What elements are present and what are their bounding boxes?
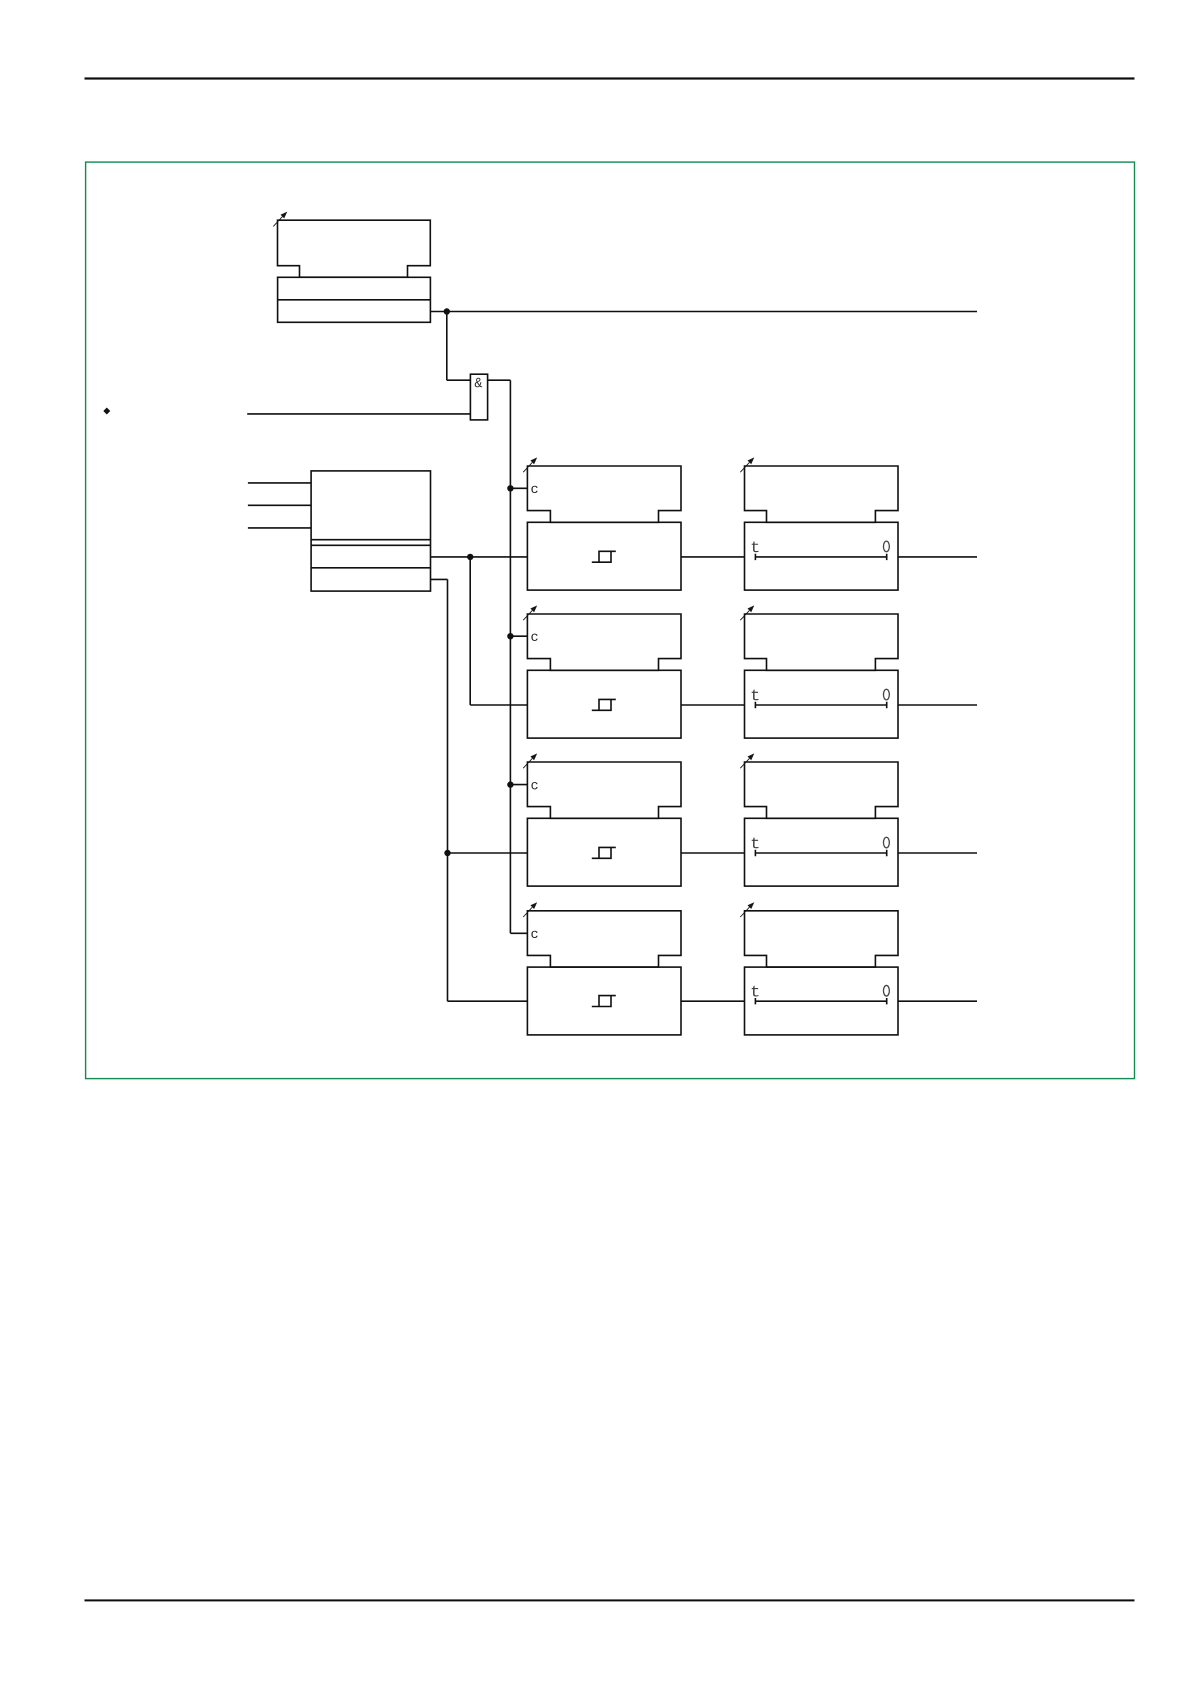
stage 1 comparator adjust arrow — [523, 457, 537, 472]
stage 3 pulse symbol — [592, 847, 616, 858]
stage 3 timer control block — [745, 762, 899, 818]
wire stage 3 clock input c — [510, 784, 527, 786]
stage 4 label 0 — [883, 985, 889, 996]
stage 3 time axis t-0 — [755, 850, 886, 856]
stage 4 timer adjust arrow — [740, 902, 754, 917]
wire stage 3 comparator to timer — [681, 852, 745, 854]
wire branch to stage 4 — [448, 1000, 528, 1002]
stage 2 comparator control block — [527, 614, 681, 670]
stage 4 label t — [752, 986, 759, 997]
wire branch down to stage 2 — [469, 557, 471, 705]
stage 4 comparator adjust arrow — [523, 902, 537, 917]
stage 1 time axis t-0 — [755, 554, 886, 560]
stage 2 label c — [531, 634, 537, 641]
wire stage 2 output — [898, 704, 977, 706]
wire stage 4 clock input c — [510, 932, 527, 934]
oscillator adjust arrow — [273, 212, 287, 227]
stage 4 pulse symbol — [592, 996, 616, 1007]
stage 2 pulse symbol — [592, 699, 616, 710]
stage 3 label t — [752, 838, 759, 849]
stage 2 label 0 — [883, 689, 889, 700]
wire counter input 1 — [248, 482, 311, 484]
stage 3 comparator control block — [527, 762, 681, 818]
node stage 3 branch — [444, 850, 450, 856]
stage 2 timer block — [745, 670, 899, 738]
stage 4 comparator control block — [527, 911, 681, 967]
stage 3 timer block — [745, 818, 899, 886]
stage 2 label t — [752, 690, 759, 701]
wire stage 1 output — [898, 556, 977, 558]
wire stage 4 output — [898, 1000, 977, 1002]
stage 1 timer adjust arrow — [740, 457, 754, 472]
oscillator output block — [278, 277, 431, 322]
wire stage 4 comparator to timer — [681, 1000, 745, 1002]
stage 3 comparator block — [527, 818, 681, 886]
counter divider double — [311, 544, 430, 546]
stage 2 comparator block — [527, 670, 681, 738]
wire stage 2 comparator to timer — [681, 704, 745, 706]
oscillator control block — [278, 220, 431, 277]
node stage 3 clock junction — [507, 781, 513, 787]
stage 4 comparator block — [527, 967, 681, 1035]
wire counter output A to stage 1 — [431, 556, 528, 558]
node stage 1 branch — [467, 554, 473, 560]
AND gate U1 — [470, 374, 487, 420]
stage 1 timer block — [745, 522, 899, 590]
stage 4 time axis t-0 — [755, 998, 886, 1004]
stage 4 timer control block — [745, 911, 899, 967]
wire stage 1 comparator to timer — [681, 556, 745, 558]
wire junction to AND gate — [446, 312, 448, 381]
stage 4 timer block — [745, 967, 899, 1035]
bullet marker — [103, 408, 110, 415]
bottom rule — [85, 1599, 1135, 1601]
wire AND gate output — [488, 379, 511, 381]
stage 4 label c — [531, 931, 537, 938]
wire branch to stage 3 — [448, 852, 528, 854]
stage 1 label c — [531, 486, 537, 493]
top rule — [85, 77, 1135, 79]
stage 3 timer adjust arrow — [740, 753, 754, 768]
stage 2 time axis t-0 — [755, 702, 886, 708]
node stage 1 clock junction — [507, 485, 513, 491]
wire counter input 2 — [248, 504, 311, 506]
counter control block — [311, 471, 430, 591]
stage 1 comparator control block — [527, 466, 681, 522]
stage 1 comparator block — [527, 522, 681, 590]
stage 1 timer control block — [745, 466, 899, 522]
stage 2 timer adjust arrow — [740, 605, 754, 620]
wire counter output B — [431, 578, 448, 580]
stage 1 pulse symbol — [592, 551, 616, 562]
node stage 2 clock junction — [507, 633, 513, 639]
stage 2 comparator adjust arrow — [523, 605, 537, 620]
figure frame (green) — [86, 162, 1135, 1079]
AND gate label & — [475, 378, 482, 387]
wire oscillator output — [430, 311, 977, 313]
oscillator block divider — [278, 299, 431, 301]
wire stage 3 output — [898, 852, 977, 854]
wire AND gate input 2 — [247, 413, 470, 415]
wire stage 1 clock input c — [510, 487, 527, 489]
stage 1 label t — [752, 542, 759, 553]
counter divider lower — [311, 567, 430, 569]
wire counter input 3 — [248, 527, 311, 529]
stage 3 comparator adjust arrow — [523, 753, 537, 768]
counter divider upper — [311, 539, 430, 541]
wire stage 2 clock input c — [510, 635, 527, 637]
stage 1 label 0 — [883, 541, 889, 552]
node oscillator output junction — [444, 308, 450, 314]
stage 3 label 0 — [883, 837, 889, 848]
stage 2 timer control block — [745, 614, 899, 670]
stage 3 label c — [531, 782, 537, 789]
